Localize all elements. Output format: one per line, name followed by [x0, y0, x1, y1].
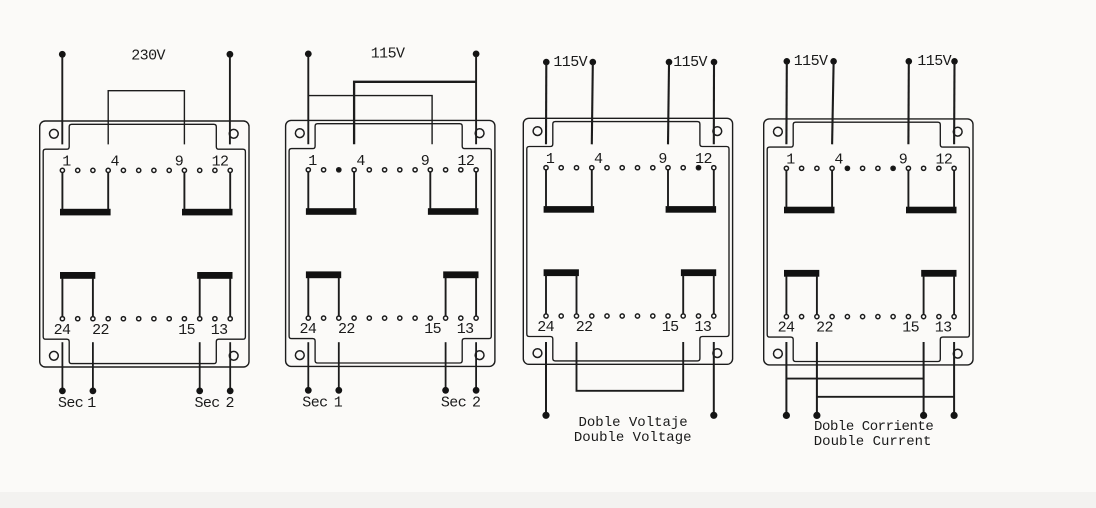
T4 pin label 12 [935, 151, 952, 168]
T4 mounting hole bottom-left [774, 349, 783, 358]
T3 mounting hole bottom-left [533, 349, 542, 358]
svg-text:24: 24 [299, 321, 316, 338]
svg-text:13: 13 [211, 322, 228, 339]
T4 wire pin 13 to output [953, 342, 955, 412]
T4 line terminal dot b [830, 58, 837, 65]
svg-text:12: 12 [457, 153, 474, 170]
T4 output terminal dot a [783, 412, 790, 419]
T1 wire right terminal to pin 12 [229, 57, 231, 145]
svg-text:15: 15 [902, 320, 919, 337]
T4 mounting hole top-left [774, 127, 783, 136]
svg-text:13: 13 [457, 321, 474, 338]
T2 pin label 9 [421, 153, 430, 170]
T1 wire secondary bar to pin 15 [199, 278, 201, 316]
transformer T3 case outline [523, 118, 732, 364]
svg-text:9: 9 [899, 151, 908, 168]
T3 wire pin 12 to primary bar [713, 170, 715, 207]
svg-text:1: 1 [87, 395, 96, 412]
T3 pin label 9 [658, 151, 667, 168]
T4 pin label 22 [816, 320, 833, 337]
svg-text:22: 22 [816, 320, 833, 337]
T1 wire secondary bar to pin 22 [92, 278, 94, 316]
transformer T2 inner cover outline [289, 124, 491, 363]
label Doble Corriente [814, 419, 933, 435]
T3 bottom pin row (pins 24-13) [544, 314, 716, 318]
svg-text:4: 4 [110, 154, 119, 171]
T2 Sec1 terminal dot a [305, 387, 312, 394]
svg-text:115V: 115V [794, 53, 828, 70]
svg-text:1: 1 [546, 151, 555, 168]
T3 wire terminal to pin 12 [713, 64, 715, 144]
T1 wire pin 12 to primary bar [229, 173, 231, 210]
T4 line terminal dot a [784, 58, 791, 65]
T3 wire secondary bar to pin 24 [545, 276, 547, 314]
T4 secondary winding 1 bar (pins 24-22) [784, 270, 819, 277]
T1 pin label 1 [62, 154, 71, 171]
T4 output terminal dot c [920, 412, 927, 419]
T2 secondary winding 2 bar (pins 15-13) [443, 271, 478, 278]
transformer T2 case outline [286, 120, 495, 366]
T3 mounting hole top-left [533, 127, 542, 136]
T1 primary winding 2 bar (pins 9-12) [182, 209, 233, 216]
T2 mounting hole top-left [295, 129, 304, 138]
T3 primary winding 1 bar (pins 1-4) [544, 206, 595, 213]
svg-text:115V: 115V [673, 54, 707, 71]
T3 wire pin 9 to primary bar [667, 170, 669, 207]
label Doble Voltaje [578, 415, 687, 431]
T2 mounting hole top-right [475, 129, 484, 138]
T1 mounting hole top-right [229, 129, 238, 138]
T1 pin label 13 [211, 322, 228, 339]
T3 pin label 1 [546, 151, 555, 168]
T4 wire pin 22 to output [816, 342, 818, 412]
T3 secondary winding 1 bar (pins 24-22) [544, 269, 579, 276]
T4 primary winding 1 bar (pins 1-4) [784, 207, 835, 214]
svg-text:1: 1 [334, 395, 343, 412]
T1 mounting hole bottom-right [229, 351, 238, 360]
svg-text:15: 15 [662, 319, 679, 336]
T1 mounting hole top-left [50, 129, 59, 138]
T2 primary winding 1 bar (pins 1-4) [306, 208, 357, 215]
T4 wire terminal to pin 1 [785, 63, 787, 144]
T1 secondary winding 1 bar (pins 24-22) [60, 272, 95, 279]
T2 wire pin 9 to primary bar [429, 172, 431, 209]
T4 wire secondary bar to pin 13 [953, 276, 955, 314]
T1 wire pin 9 to primary bar [183, 173, 185, 210]
transformer T4 inner cover outline [767, 122, 969, 361]
svg-text:12: 12 [212, 154, 229, 171]
T2 pin label 12 [457, 153, 474, 170]
T2 wire left terminal to pin 1 [307, 56, 309, 144]
T4 line terminal dot c [906, 58, 913, 65]
label 115V (T3 right) [673, 54, 707, 71]
T4 wire pin 9 to primary bar [907, 171, 909, 208]
T1 wire pin 15 to Sec2 [199, 342, 201, 388]
T4 top pin row (pins 1-12) [784, 166, 956, 170]
label 115V (T3 left) [553, 54, 587, 71]
T3 wire terminal to pin 9 [668, 64, 669, 144]
T3 wire pin 13 to output [713, 342, 715, 412]
T4 wire terminal to pin 9 [907, 63, 909, 144]
transformer T4 case outline [764, 119, 973, 365]
T1 wire pin 13 to Sec2 [229, 342, 231, 388]
label Sec 2 (T2) [441, 395, 481, 412]
svg-text:22: 22 [92, 322, 109, 339]
T2 line terminal dot right [473, 51, 480, 58]
svg-text:Sec: Sec [58, 395, 83, 412]
T4 primary winding 2 bar (pins 9-12) [906, 207, 957, 214]
T4 wire secondary bar to pin 22 [816, 276, 818, 314]
T1 secondary winding 2 bar (pins 15-13) [197, 272, 232, 279]
T3 wire pin 1 to primary bar [545, 170, 547, 207]
svg-text:24: 24 [54, 322, 71, 339]
T1 primary winding 1 bar (pins 1-4) [60, 209, 111, 216]
transformer T1 inner cover outline [43, 124, 245, 363]
T3 wire terminal to pin 1 [545, 64, 547, 144]
T2 wire right terminal to pin 12 [475, 56, 477, 144]
svg-text:22: 22 [576, 319, 593, 336]
T3 pin label 24 [537, 319, 554, 336]
T4 wire pin 24 to output [785, 342, 787, 412]
svg-text:Sec: Sec [195, 395, 220, 412]
T2 wire pin 1 to primary bar [307, 172, 309, 209]
svg-text:13: 13 [694, 319, 711, 336]
label 115V (T2) [371, 45, 405, 62]
T3 pin label 4 [594, 151, 603, 168]
T1 pin label 4 [110, 154, 119, 171]
T1 mounting hole bottom-left [50, 351, 59, 360]
T4 wire terminal to pin 4 [832, 63, 834, 144]
T1 pin label 24 [54, 322, 71, 339]
T1 wire pin 1 to primary bar [61, 173, 63, 210]
T4 wire pin 12 to primary bar [953, 171, 955, 208]
svg-text:230V: 230V [131, 47, 165, 64]
T4 wire terminal to pin 12 [953, 63, 956, 144]
T4 wire pin 15 to output [923, 342, 925, 412]
T3 line terminal dot a [543, 59, 550, 66]
T2 Sec2 terminal dot b [473, 387, 480, 394]
T2 pin label 13 [457, 321, 474, 338]
T3 line terminal dot b [590, 59, 597, 66]
T4 pin label 24 [778, 320, 795, 337]
T4 parallel link pins 24-15 [786, 378, 923, 380]
svg-text:15: 15 [424, 321, 441, 338]
svg-text:9: 9 [658, 151, 667, 168]
transformer T1 case outline [40, 121, 249, 367]
svg-text:15: 15 [178, 322, 195, 339]
T3 mounting hole bottom-right [713, 349, 722, 358]
T3 top pin row (pins 1-12) [544, 166, 716, 170]
svg-text:115V: 115V [553, 54, 587, 71]
T4 output terminal dot b [813, 412, 820, 419]
T3 output terminal dot right [710, 412, 717, 419]
T4 bottom pin row (pins 24-13) [784, 315, 956, 319]
T3 series link pins 22-15 [577, 342, 684, 391]
T2 pin label 15 [424, 321, 441, 338]
T1 wire secondary bar to pin 13 [229, 278, 231, 316]
svg-text:Doble Corriente: Doble Corriente [814, 419, 933, 435]
T2 primary winding 2 bar (pins 9-12) [428, 208, 479, 215]
T2 pin label 1 [308, 153, 317, 170]
svg-text:2: 2 [472, 395, 481, 412]
T2 wire secondary bar to pin 24 [307, 278, 309, 316]
T3 primary winding 2 bar (pins 9-12) [666, 206, 717, 213]
T1 bottom pin row (pins 24-13) [60, 317, 232, 321]
svg-text:Double Current: Double Current [814, 434, 932, 450]
T4 pin label 15 [902, 320, 919, 337]
T2 mounting hole bottom-left [295, 351, 304, 360]
T1 pin label 9 [175, 154, 184, 171]
svg-text:9: 9 [421, 153, 430, 170]
svg-text:12: 12 [935, 151, 952, 168]
T2 wire pin 22 to Sec1 [338, 342, 340, 387]
T4 mounting hole bottom-right [953, 349, 962, 358]
T3 line terminal dot c [666, 59, 673, 66]
T2 pin label 4 [356, 153, 365, 170]
T4 output terminal dot d [951, 412, 958, 419]
svg-text:4: 4 [834, 151, 843, 168]
T1 wire left terminal to pin 1 [61, 57, 63, 145]
svg-text:24: 24 [537, 319, 554, 336]
T4 wire pin 4 to primary bar [831, 171, 833, 208]
T2 bottom pin row (pins 24-13) [306, 316, 478, 320]
svg-text:Double Voltage: Double Voltage [574, 430, 692, 446]
T2 parallel jumper pin 4 to right terminal [354, 82, 476, 144]
T3 wire secondary bar to pin 22 [576, 276, 578, 314]
T2 wire secondary bar to pin 15 [445, 278, 447, 316]
T1 Sec1 terminal dot b [90, 388, 97, 395]
T2 wire pin 15 to Sec2 [445, 342, 447, 387]
transformer T3 inner cover outline [527, 122, 729, 361]
T4 pin label 4 [834, 151, 843, 168]
svg-text:115V: 115V [917, 53, 951, 70]
T1 wire secondary bar to pin 24 [61, 278, 63, 316]
T3 pin label 12 [695, 151, 712, 168]
label 230V [131, 47, 165, 64]
T3 wire pin 4 to primary bar [591, 170, 593, 207]
svg-text:24: 24 [778, 320, 795, 337]
T2 parallel jumper pin 9 to left terminal [308, 96, 432, 145]
svg-text:115V: 115V [371, 45, 405, 62]
T1 pin label 15 [178, 322, 195, 339]
T1 pin label 12 [212, 154, 229, 171]
T4 mounting hole top-right [953, 127, 962, 136]
T4 pin label 13 [935, 320, 952, 337]
T1 series jumper wire pins 4-9 [108, 91, 184, 145]
T2 top pin row (pins 1-12) [306, 168, 478, 172]
T1 wire pin 4 to primary bar [107, 173, 109, 210]
label Double Current [814, 434, 932, 450]
svg-text:13: 13 [935, 320, 952, 337]
T2 pin label 24 [299, 321, 316, 338]
T2 mounting hole bottom-right [475, 351, 484, 360]
T3 line terminal dot d [711, 59, 718, 66]
label 115V (T4 left) [794, 53, 828, 70]
T2 secondary winding 1 bar (pins 24-22) [306, 271, 341, 278]
T4 secondary winding 2 bar (pins 15-13) [921, 270, 956, 277]
T2 Sec2 terminal dot a [442, 387, 449, 394]
T2 wire pin 12 to primary bar [475, 172, 477, 209]
T3 pin label 15 [662, 319, 679, 336]
T2 Sec1 terminal dot b [335, 387, 342, 394]
svg-text:2: 2 [225, 395, 234, 412]
label Sec 2 [195, 395, 235, 412]
T3 mounting hole top-right [713, 127, 722, 136]
T1 line terminal dot left [59, 51, 66, 58]
svg-text:Sec: Sec [302, 395, 327, 412]
T2 wire pin 24 to Sec1 [307, 342, 309, 387]
label Sec 1 (T2) [302, 395, 343, 412]
T4 wire secondary bar to pin 24 [785, 276, 787, 314]
T3 pin label 13 [694, 319, 711, 336]
svg-text:4: 4 [594, 151, 603, 168]
T3 output terminal dot left [542, 412, 549, 419]
svg-text:Sec: Sec [441, 395, 466, 412]
T1 line terminal dot right [227, 51, 234, 58]
T2 wire pin 4 to primary bar [353, 172, 355, 209]
bottom scan shading band [0, 492, 1096, 508]
T3 wire pin 24 to output [545, 342, 547, 412]
T4 wire secondary bar to pin 15 [923, 276, 925, 314]
T1 Sec2 terminal dot a [196, 388, 203, 395]
T3 wire secondary bar to pin 15 [682, 276, 684, 314]
T2 pin label 22 [338, 321, 355, 338]
T3 wire secondary bar to pin 13 [713, 276, 715, 314]
T4 parallel link pins 22-13 [817, 396, 954, 398]
T1 Sec1 terminal dot a [59, 388, 66, 395]
T2 line terminal dot left [305, 51, 312, 58]
T3 secondary winding 2 bar (pins 15-13) [681, 269, 716, 276]
T1 wire pin 24 to Sec1 [61, 342, 63, 388]
T1 Sec2 terminal dot b [227, 388, 234, 395]
svg-text:12: 12 [695, 151, 712, 168]
T2 wire secondary bar to pin 13 [475, 278, 477, 316]
svg-text:4: 4 [356, 153, 365, 170]
svg-text:9: 9 [175, 154, 184, 171]
T4 pin label 9 [899, 151, 908, 168]
T3 pin label 22 [576, 319, 593, 336]
T2 wire pin 13 to Sec2 [475, 342, 477, 387]
label 115V (T4 right) [917, 53, 951, 70]
T3 wire terminal to pin 4 [592, 64, 593, 144]
T1 pin label 22 [92, 322, 109, 339]
T1 top pin row (pins 1-12) [60, 168, 232, 172]
T2 wire secondary bar to pin 22 [338, 278, 340, 316]
svg-text:Doble Voltaje: Doble Voltaje [578, 415, 687, 431]
label Sec 1 [58, 395, 96, 412]
T1 wire pin 22 to Sec1 [92, 342, 94, 388]
T4 wire pin 1 to primary bar [785, 171, 787, 208]
label Double Voltage [574, 430, 692, 446]
svg-text:1: 1 [62, 154, 71, 171]
svg-text:1: 1 [786, 151, 795, 168]
svg-text:1: 1 [308, 153, 317, 170]
svg-text:22: 22 [338, 321, 355, 338]
T4 pin label 1 [786, 151, 795, 168]
T4 line terminal dot d [951, 58, 958, 65]
